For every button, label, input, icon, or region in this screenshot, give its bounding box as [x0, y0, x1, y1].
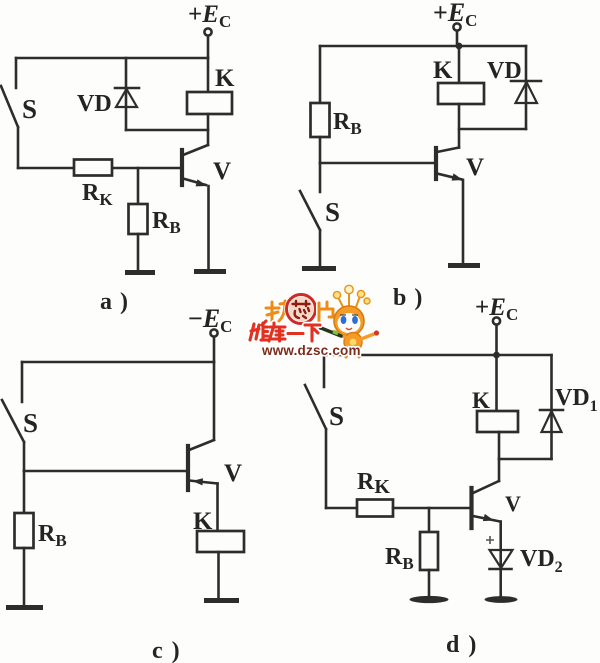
transistor V a	[180, 150, 184, 185]
svg-text:RB: RB	[385, 544, 414, 573]
svg-text:RB: RB	[38, 521, 67, 550]
ground VD2 d	[485, 596, 518, 603]
diode VD2 d	[490, 550, 513, 568]
wire RB to ground c	[23, 548, 26, 605]
switch S c	[2, 362, 24, 471]
svg-text:K: K	[215, 65, 235, 92]
junction dot d	[493, 352, 500, 359]
diode VD1 d	[540, 409, 563, 412]
resistor RB d	[420, 532, 438, 570]
wire VD branch b	[525, 46, 528, 129]
wire top rail a	[16, 57, 208, 60]
svg-text:d): d)	[446, 632, 476, 658]
watermark glyph pian (piece)	[319, 302, 333, 321]
wire base node to RB a	[137, 168, 140, 204]
svg-text:www.dzsc.com: www.dzsc.com	[261, 343, 361, 358]
wire base c	[24, 470, 187, 473]
wire switch to RK d	[326, 507, 357, 510]
wire node to VD1 d	[499, 458, 552, 461]
wire emitter to relay c	[216, 484, 219, 532]
wire emitter to ground a	[207, 186, 210, 269]
svg-text:S: S	[325, 197, 340, 227]
wire base node to RB d	[428, 508, 431, 532]
junction dot b	[456, 43, 463, 50]
svg-text:V: V	[466, 154, 484, 181]
wire collector branch c	[213, 362, 216, 440]
wire switch node to RB c	[23, 471, 26, 513]
svg-text:VD: VD	[487, 58, 522, 84]
wire terminal to rail c	[213, 337, 216, 362]
terminal +EC d	[493, 317, 500, 324]
ground emitter b	[448, 263, 480, 268]
wire relay to ground c	[217, 552, 220, 598]
svg-text:c): c)	[152, 638, 180, 663]
diode VD b	[511, 80, 541, 83]
wire VD1 branch d	[550, 355, 553, 459]
diode VD a	[115, 87, 139, 90]
ground relay c	[204, 598, 239, 603]
svg-text:S: S	[22, 94, 37, 124]
svg-text:+EC: +EC	[475, 294, 518, 324]
wire RK to base d	[393, 507, 470, 510]
switch S a	[1, 58, 18, 168]
terminal +EC b	[453, 23, 460, 30]
wire left branch b	[319, 46, 322, 103]
resistor RB b	[311, 103, 330, 137]
svg-text:K: K	[433, 57, 453, 84]
wire RB to ground d	[428, 570, 431, 596]
svg-text:RK: RK	[357, 469, 390, 498]
watermark text weikuyixia	[250, 321, 320, 341]
resistor RK d	[357, 500, 393, 517]
relay coil K c	[197, 531, 244, 552]
wire base a	[18, 167, 182, 170]
wire rail to relay b	[458, 46, 461, 83]
transistor V c	[186, 446, 190, 490]
wire emitter to ground b	[462, 180, 465, 263]
svg-text:b): b)	[393, 285, 422, 311]
wire top rail b	[320, 45, 526, 48]
switch S b	[300, 163, 320, 266]
svg-text:RK: RK	[82, 180, 113, 209]
svg-text:VD2: VD2	[520, 546, 563, 576]
svg-text:RB: RB	[333, 109, 362, 138]
wire collector node to VD b	[459, 128, 526, 131]
ground RB d	[410, 596, 449, 603]
wire terminal to rail b	[456, 31, 459, 44]
watermark glyph zhao (find)	[266, 301, 293, 321]
svg-text:S: S	[23, 408, 38, 438]
transistor V d	[469, 488, 473, 528]
resistor RK a	[74, 160, 112, 176]
wire rail to relay d	[495, 355, 498, 411]
wire rail to relay a	[207, 58, 210, 92]
wire VD bottom to collector node a	[126, 129, 208, 132]
svg-text:V: V	[224, 460, 242, 487]
plus mark d	[486, 536, 494, 544]
terminal -EC c	[210, 329, 217, 336]
ground switch b	[302, 266, 336, 271]
ground RB c	[6, 605, 43, 610]
svg-text:a): a)	[100, 289, 128, 315]
resistor RB a	[129, 204, 148, 234]
wire emitter to VD2 d	[499, 522, 502, 597]
wire relay to collector b	[458, 104, 461, 148]
ground emitter a	[194, 269, 226, 274]
svg-text:V: V	[505, 491, 521, 516]
wire terminal to top rail a	[207, 36, 210, 58]
resistor RB c	[15, 513, 34, 548]
ground RB a	[125, 270, 155, 275]
transistor V b	[434, 148, 438, 179]
watermark ring with xin	[287, 295, 316, 324]
relay coil K a	[187, 92, 232, 114]
terminal +EC a	[204, 28, 211, 35]
wire node to collector d	[498, 459, 501, 481]
relay coil K d	[477, 411, 518, 432]
svg-text:K: K	[472, 388, 490, 413]
wire base b	[320, 162, 435, 165]
svg-text:+EC: +EC	[188, 1, 231, 31]
wire VD branch top a	[125, 58, 128, 130]
svg-text:VD: VD	[77, 91, 112, 117]
wire relay to node d	[498, 432, 501, 459]
wire top rail c	[22, 361, 214, 364]
watermark mascot	[316, 285, 379, 357]
wire terminal to rail d	[495, 325, 498, 353]
switch S d	[305, 355, 326, 508]
wire relay to collector a	[207, 114, 210, 145]
wire RB to base node b	[319, 137, 322, 163]
wire RB to ground a	[137, 234, 140, 270]
svg-text:S: S	[329, 401, 344, 431]
wire top rail d	[324, 354, 552, 357]
svg-text:V: V	[213, 158, 231, 185]
relay coil K b	[438, 83, 484, 104]
svg-text:VD1: VD1	[555, 385, 598, 415]
svg-text:RB: RB	[152, 208, 181, 237]
